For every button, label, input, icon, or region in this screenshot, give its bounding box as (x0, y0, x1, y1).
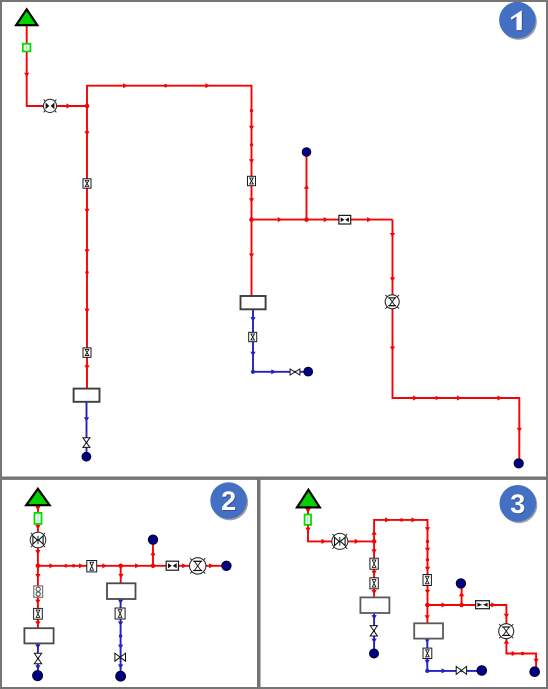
junction J9 (425, 603, 430, 608)
page badge 2 (210, 482, 248, 520)
node N9 (33, 671, 43, 681)
flow arrow g4 (355, 539, 360, 544)
flow arrow g1 (305, 509, 310, 514)
flow arrow blue k1 (372, 615, 377, 620)
flow arrow g10 (425, 590, 430, 595)
flow arrow a13 (84, 309, 89, 314)
flow arrow blue b2 (250, 352, 255, 357)
flow arrow blue f7 (35, 665, 40, 670)
flow arrow a4 (205, 83, 210, 88)
flow arrow a3 (123, 83, 128, 88)
junction J2 (249, 217, 254, 222)
valve V4 blue line (249, 332, 257, 341)
flow arrow a6 (249, 126, 254, 131)
pipe header y605 (427, 605, 506, 631)
flow arrow g9 (425, 548, 430, 553)
flow vertex dot d3 (435, 396, 438, 399)
flow arrow g2 (305, 528, 310, 533)
junction J6 (118, 564, 123, 569)
flow vertex dot h3 (426, 558, 429, 561)
flow arrow g16 (491, 602, 496, 607)
flow arrow blue k3 (425, 639, 430, 644)
flow arrow g13 (372, 590, 377, 595)
flow vertex dot blue f3 (119, 634, 122, 637)
flow arrow g14 (442, 602, 447, 607)
flow arrow blue f5 (118, 664, 123, 669)
pump P3 (332, 533, 348, 549)
flow arrow a9 (249, 254, 254, 259)
flow arrow a21 (390, 347, 395, 352)
flow arrow blue k4 (425, 660, 430, 665)
flow arrow g20 (534, 659, 539, 664)
flow arrow g8 (425, 527, 430, 532)
flow arrow c5 (79, 563, 84, 568)
control valve FCV3 (499, 624, 514, 639)
valve V8 (370, 558, 378, 569)
flow arrow c3 (35, 550, 40, 555)
pump P2 (30, 532, 46, 548)
flow arrow c5b (102, 563, 107, 568)
flow arrow c12 (35, 600, 40, 605)
junction blue J4 (251, 370, 255, 374)
flow arrow blue b3 (271, 369, 276, 374)
node N12 (477, 666, 487, 676)
gate valve GV5 (370, 626, 377, 636)
source marker S2 (35, 513, 42, 524)
pipe left branch down (86, 106, 88, 390)
flow arrow a8 (249, 198, 254, 203)
pipe right drop and bottom run (393, 220, 520, 460)
flow arrow blue k5 (442, 668, 447, 673)
gate valve GV2 (83, 438, 90, 448)
pipe riser from reservoir R2 (37, 505, 39, 566)
reservoir R1 (16, 9, 37, 25)
pipe riser to node N10 (461, 586, 463, 605)
flow arrow c10 (118, 574, 123, 579)
flow arrow g9b (425, 567, 430, 572)
flow arrow g17 (504, 614, 509, 619)
valve V10 (423, 575, 431, 586)
flow arrow c13 (35, 621, 40, 626)
flow arrow blue f2 (118, 622, 123, 627)
flow arrow g6 (385, 517, 390, 522)
tank T3 (107, 583, 136, 599)
flow arrow c11 (35, 574, 40, 579)
flow arrow a15 (278, 217, 283, 222)
gate valve GV3 (115, 653, 126, 661)
flow vertex dot d1 (164, 84, 167, 87)
junction J1 (85, 104, 90, 109)
flow arrow a2 (66, 103, 71, 108)
node N13 (530, 667, 540, 677)
flow arrow a24 (498, 395, 503, 400)
node N3 (304, 367, 313, 376)
valve V11 blue line (423, 648, 432, 658)
flow arrow g7 (412, 517, 417, 522)
pipe main riser from reservoir R1 (27, 25, 87, 107)
flow arrow a23 (457, 395, 462, 400)
control valve FCV2 (190, 558, 206, 574)
tank T1 (241, 296, 266, 309)
valve V9 (370, 578, 378, 589)
control valve FCV1 (385, 295, 399, 309)
pipe blue tank T5 outlet (373, 613, 375, 651)
junction J10 (459, 603, 464, 608)
flow vertex dot e2 (72, 564, 75, 567)
pump P1 (43, 99, 56, 112)
junction J5 (36, 564, 41, 569)
node N5 (514, 459, 523, 468)
flow arrow a1 (24, 73, 29, 78)
flow arrow c6 (135, 563, 140, 568)
junction J8 (372, 539, 377, 544)
flow vertex dot d12 (85, 271, 88, 274)
pipe riser to node N6 (152, 541, 154, 566)
flow arrow g12 (372, 571, 377, 576)
tank T4 (24, 628, 53, 643)
svg-text:3: 3 (510, 489, 525, 519)
flow arrow a7 (249, 159, 254, 164)
source marker S1 (23, 44, 31, 52)
node N11 (370, 649, 379, 658)
flow arrow g11 (372, 549, 377, 554)
flow arrow blue f4 (118, 645, 123, 650)
pipe blue tank T4 outlet (37, 643, 39, 672)
flow arrow c1 (35, 506, 40, 511)
flow vertex dot h1 (400, 518, 403, 521)
node N2 (302, 148, 311, 157)
pipe upper loop (374, 520, 427, 605)
page badge 1 (499, 2, 537, 40)
meter M1 (34, 586, 43, 597)
node N4 (82, 452, 91, 461)
flow arrow blue k2 (372, 639, 377, 644)
node N7 (222, 561, 231, 570)
check valve CV1 (339, 215, 351, 224)
source marker S3 (305, 515, 311, 525)
tank T2 (74, 389, 100, 402)
flow arrow a16 (324, 217, 329, 222)
flow arrow a20 (390, 277, 395, 282)
reservoir R3 (297, 490, 320, 508)
pipe blue tank T1 outlet (253, 309, 304, 372)
flow arrow a18 (304, 184, 309, 189)
flow arrow c4 (49, 563, 54, 568)
flow vertex dot a5 (250, 109, 253, 112)
flow arrow c2 (35, 525, 40, 530)
pipe branch left down (37, 566, 39, 629)
flow vertex dot h4 (521, 652, 524, 655)
pipe blue tank T6 outlet (427, 639, 478, 671)
pipe drop to node N13 (506, 631, 536, 668)
flow arrow c8 (209, 563, 214, 568)
pipe branch left down p3 (373, 541, 375, 598)
flow arrow c7 (182, 563, 187, 568)
pipe blue tank T3 outlet (120, 599, 122, 673)
tank T6 (414, 623, 443, 638)
flow arrow blue f1 (118, 600, 123, 605)
flow arrow a10 (84, 131, 89, 136)
check valve CV2 (166, 561, 178, 570)
pipe branch mid down (120, 566, 122, 584)
node N6 (148, 535, 157, 544)
panel divider horizontal (0, 477, 548, 480)
valve V6 (34, 608, 43, 619)
check valve CV3 (476, 601, 490, 609)
pipe blue tank T2 outlet (86, 402, 88, 453)
node N10 (456, 579, 465, 588)
flow arrow a14 (84, 365, 89, 370)
svg-text:2: 2 (221, 486, 236, 516)
flow arrow a17 (367, 217, 372, 222)
gate valve GV1 (290, 369, 300, 375)
pipe mid drop to tank T6 (426, 605, 428, 624)
flow arrow g18 (504, 639, 509, 644)
panel divider vertical (257, 478, 261, 689)
flow arrow blue f6 (35, 644, 40, 649)
junction blue J11 (425, 669, 429, 673)
flow vertex dot h2 (426, 540, 429, 543)
flow arrow g19 (512, 651, 517, 656)
valve V2 (248, 176, 256, 185)
flow arrow blue b4 (84, 417, 89, 422)
reservoir R2 (26, 489, 49, 505)
valve V7 blue line (115, 608, 125, 619)
pipe riser to node N2 (306, 153, 308, 220)
flow arrow a19 (390, 233, 395, 238)
flow arrow a25 (517, 428, 522, 433)
valve V5 (87, 561, 97, 572)
tank T5 (360, 597, 389, 613)
flow arrow a22 (413, 395, 418, 400)
flow arrow g5 (372, 530, 377, 535)
gate valve GV6 (456, 666, 466, 674)
flow arrow c9 (150, 551, 155, 556)
flow vertex dot d2 (250, 143, 253, 146)
flow arrow g3 (322, 539, 327, 544)
pipe header y566 (38, 565, 226, 567)
valve V3 (83, 348, 91, 357)
junction J7 (151, 564, 156, 569)
flow arrow g21 (425, 615, 430, 620)
flow arrow g15 (459, 592, 464, 597)
flow arrow a11 (84, 209, 89, 214)
gate valve GV4 (34, 653, 41, 663)
junction J3 (304, 217, 309, 222)
node N8 (116, 671, 126, 681)
flow arrow blue b1 (250, 317, 255, 322)
pipe top header (87, 86, 252, 296)
flow vertex dot e1 (64, 564, 67, 567)
valve V1 (83, 179, 91, 188)
pipe mid header y220 (252, 219, 393, 221)
page badge 3 (500, 485, 538, 523)
pipe riser from reservoir R3 (308, 507, 374, 541)
flow arrow a12 (84, 249, 89, 254)
